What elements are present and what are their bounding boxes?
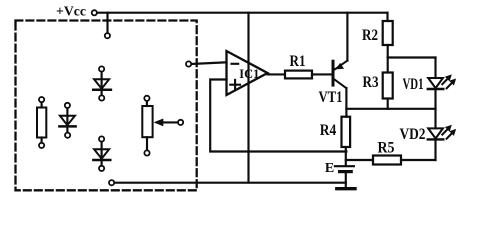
svg-text:R1: R1: [290, 53, 306, 70]
sensor internal diode (left): [59, 103, 75, 138]
wire: R2 bottom to junction, right to VD1: [388, 45, 436, 58]
svg-text:R3: R3: [363, 74, 379, 91]
VD1 light arrows: [442, 77, 450, 85]
VD2 light arrows: [442, 127, 450, 135]
battery positive plate (long): [335, 165, 354, 167]
potentiometer wiper arrow: [161, 121, 178, 123]
svg-text:VD1: VD1: [403, 76, 424, 93]
svg-text:E: E: [325, 161, 334, 176]
sensor dashed box: [16, 21, 197, 191]
sensor internal resistor: [37, 97, 46, 148]
wire: VD2 bottom to R5: [401, 159, 436, 161]
wire: +Vcc top supply rail: [97, 12, 387, 14]
resistor R5: [373, 156, 401, 165]
wire below battery: [345, 173, 347, 187]
emitter lead with arrow (upper): [335, 61, 348, 70]
wire: bottom rail (sensor to battery negative): [115, 182, 346, 184]
op-amp IC1 triangle: [227, 51, 268, 95]
op-amp plus sign: [230, 80, 240, 90]
svg-text:R2: R2: [362, 27, 378, 44]
LED VD2: [428, 109, 456, 160]
resistor R3: [383, 73, 393, 99]
wire: R3 bottom to node line: [387, 99, 389, 109]
wire: junction down to R3: [387, 58, 389, 73]
wire: R5 to battery node: [346, 159, 373, 161]
svg-text:VD2: VD2: [400, 126, 426, 143]
wire: collector node horizontal to LED string: [346, 108, 435, 110]
wire: op-amp output to R1: [268, 73, 285, 75]
wire: sensor output to inverting input: [192, 62, 227, 64]
transistor VT1: [333, 61, 347, 89]
resistor R1: [285, 71, 312, 79]
wire: R4 to battery: [345, 147, 347, 165]
resistor R2: [383, 21, 393, 45]
wire: VT1 emitter up to +Vcc rail: [346, 13, 348, 61]
collector lead (lower): [335, 80, 347, 89]
sensor internal potentiometer: [142, 96, 183, 156]
wire: op-amp vertical supply line: [247, 13, 249, 183]
sensor box bottom terminal: [109, 180, 114, 185]
resistor R4: [342, 117, 351, 147]
sensor internal diode (upper middle): [93, 66, 111, 100]
wire: VT1 collector down to node: [345, 88, 347, 117]
wire: R1 to VT1 base: [312, 73, 332, 75]
+Vcc terminal: [92, 10, 97, 15]
op-amp minus sign: [232, 63, 239, 65]
svg-text:+Vcc: +Vcc: [56, 3, 86, 18]
base bar: [332, 61, 335, 85]
LED VD1: [428, 58, 456, 109]
battery E: [335, 166, 354, 187]
svg-text:R5: R5: [378, 140, 395, 157]
wire: non-inverting input to reference node: [210, 80, 346, 152]
sensor output terminal: [186, 61, 191, 66]
sensor terminal (top): [105, 33, 110, 38]
svg-text:R4: R4: [320, 122, 337, 139]
sensor internal diode (lower middle): [93, 136, 110, 171]
wire: R2 top to rail corner: [386, 13, 388, 21]
wire: drop from rail into sensor box: [106, 13, 108, 33]
svg-text:VT1: VT1: [319, 89, 343, 106]
battery negative plate (short thick): [340, 170, 352, 173]
ground: [337, 187, 355, 190]
